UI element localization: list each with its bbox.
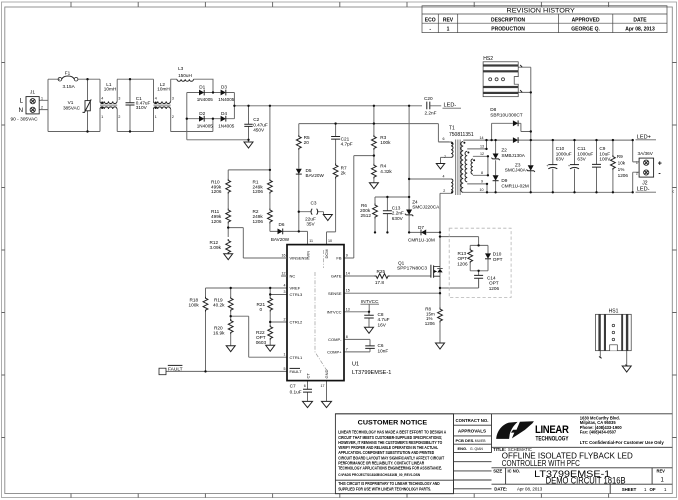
svg-text:BAV20W: BAV20W [271,237,290,242]
svg-text:4: 4 [284,284,286,288]
svg-text:14: 14 [346,272,350,276]
svg-text:CTRL3: CTRL3 [290,292,303,297]
svg-text:BAV20W: BAV20W [306,173,325,178]
svg-text:CONTROLLER WITH PFC: CONTROLLER WITH PFC [502,459,580,468]
svg-text:TECHNOLOGY APPLICATIONS ENGINE: TECHNOLOGY APPLICATIONS ENGINEERING FOR … [338,466,442,471]
svg-text:10: 10 [328,239,332,243]
svg-text:9: 9 [481,180,483,184]
svg-text:SHEET: SHEET [622,487,637,492]
svg-text:630V: 630V [392,216,404,221]
svg-text:4: 4 [101,96,103,100]
svg-text:1206: 1206 [253,219,264,224]
svg-text:1: 1 [284,353,286,357]
svg-text:LINEAR: LINEAR [535,424,569,436]
svg-text:20: 20 [304,140,310,145]
svg-text:11: 11 [309,239,313,243]
svg-text:1: 1 [636,161,638,165]
svg-text:1206: 1206 [457,261,468,266]
svg-text:C6: C6 [378,343,384,348]
svg-text:GND: GND [324,370,329,379]
svg-text:385VAC: 385VAC [63,106,81,111]
svg-text:8: 8 [481,171,483,175]
svg-text:ECO: ECO [425,17,436,23]
svg-text:1: 1 [155,115,157,119]
svg-text:12: 12 [480,152,484,156]
svg-text:DATE: DATE [633,17,647,23]
svg-text:100k: 100k [380,140,391,145]
svg-text:450V: 450V [253,128,265,133]
svg-text:63V: 63V [556,157,565,162]
svg-text:INTVCC: INTVCC [327,310,342,315]
svg-text:c: c [673,190,675,194]
svg-text:Z2: Z2 [501,147,507,152]
svg-text:0: 0 [260,307,263,312]
svg-text:3: 3 [172,96,174,100]
svg-text:0.1uF: 0.1uF [290,390,302,395]
svg-text:VREF: VREF [290,286,301,291]
svg-text:10: 10 [480,188,484,192]
svg-text:2: 2 [41,105,43,109]
svg-text:+: + [658,161,662,168]
svg-text:LT3799EMSE-1: LT3799EMSE-1 [352,370,391,376]
svg-text:1: 1 [447,27,450,33]
svg-text:SMCJ40A: SMCJ40A [505,168,527,173]
svg-text:D8: D8 [490,107,496,112]
svg-text:63V: 63V [577,157,586,162]
svg-text:12: 12 [282,272,286,276]
svg-text:OF: OF [650,487,656,492]
svg-text:FAULT: FAULT [168,366,183,372]
svg-text:J2: J2 [642,181,648,187]
svg-text:9: 9 [346,254,348,258]
svg-text:D2: D2 [199,111,205,116]
svg-text:35V: 35V [306,221,315,226]
svg-text:3A/36V: 3A/36V [638,151,654,156]
svg-text:CMR1U-02M: CMR1U-02M [501,183,528,188]
svg-text:1N4005: 1N4005 [218,123,235,128]
svg-text:SMBJ130A: SMBJ130A [501,153,525,158]
svg-text:PCB DES.: PCB DES. [456,438,475,443]
svg-text:CONTRACT NO.: CONTRACT NO. [456,418,489,423]
svg-text:100k: 100k [189,303,200,308]
svg-text:DEMO CIRCUIT 1816B: DEMO CIRCUIT 1816B [546,476,626,486]
svg-text:3.09k: 3.09k [210,245,222,250]
svg-text:2k: 2k [341,171,347,176]
svg-text:SBR10U300CT: SBR10U300CT [490,113,522,118]
svg-text:VIN: VIN [306,251,311,258]
svg-text:2: 2 [172,115,174,119]
svg-text:2512: 2512 [361,213,372,218]
svg-text:16.9k: 16.9k [213,331,225,336]
svg-text:1N4005: 1N4005 [197,97,214,102]
svg-text:DESCRIPTION: DESCRIPTION [491,17,526,23]
svg-text:D6: D6 [279,222,285,227]
svg-text:6: 6 [443,137,445,141]
svg-text:CTRL2: CTRL2 [290,320,303,325]
svg-text:3.15A: 3.15A [63,84,76,89]
svg-text:150uH: 150uH [178,73,192,78]
svg-text:SUPPLIED FOR USE WITH LINEAR T: SUPPLIED FOR USE WITH LINEAR TECHNOLOGY … [338,486,431,491]
svg-text:COMP-: COMP- [328,337,342,342]
svg-text:CUSTOMER NOTICE: CUSTOMER NOTICE [358,420,428,427]
svg-text:3: 3 [284,290,286,294]
svg-text:0603: 0603 [256,340,267,345]
svg-text:ENG.: ENG. [458,446,468,451]
svg-text:15: 15 [346,289,350,293]
svg-text:2: 2 [443,189,445,193]
svg-text:IC NO.: IC NO. [508,469,521,474]
svg-text:14: 14 [480,136,484,140]
svg-text:D4: D4 [221,111,227,116]
svg-text:T1: T1 [449,126,455,132]
svg-text:C2: C2 [253,117,259,122]
svg-text:Fax: (408)434-0507: Fax: (408)434-0507 [580,429,617,434]
svg-text:17.8: 17.8 [375,280,385,285]
svg-text:3: 3 [118,96,120,100]
svg-text:CT: CT [306,373,311,379]
svg-text:4.32k: 4.32k [380,169,392,174]
svg-text:7: 7 [346,347,348,351]
svg-text:4.7pF: 4.7pF [341,141,353,146]
svg-text:310V: 310V [136,105,148,110]
svg-text:750811351: 750811351 [449,132,474,138]
svg-text:C20: C20 [424,96,433,101]
svg-text:1206: 1206 [211,219,222,224]
svg-text:FAULT: FAULT [290,369,303,374]
svg-text:10nF: 10nF [378,348,389,353]
svg-text:16V: 16V [378,322,387,327]
svg-text:90 - 305VAC: 90 - 305VAC [11,117,39,123]
svg-text:1N4005: 1N4005 [197,123,214,128]
svg-text:1206: 1206 [618,173,629,178]
svg-text:OPT: OPT [493,257,503,262]
svg-text:SPP17N80C3: SPP17N80C3 [397,265,428,270]
svg-text:FB: FB [336,256,341,261]
svg-text:4: 4 [155,96,157,100]
svg-text:D1: D1 [199,85,205,90]
svg-text:1206: 1206 [211,189,222,194]
svg-text:APPROVED: APPROVED [572,17,600,23]
svg-text:1%: 1% [618,167,625,172]
svg-text:2: 2 [118,115,120,119]
svg-text:LTC Confidential-For Customer: LTC Confidential-For Customer Use Only [580,440,665,445]
svg-text:Apr 08, 2013: Apr 08, 2013 [625,27,655,33]
svg-text:7: 7 [444,155,446,159]
svg-text:4: 4 [443,174,445,178]
svg-text:PRODUCTION: PRODUCTION [491,27,525,33]
svg-text:U1: U1 [352,362,359,368]
svg-text:DATE:: DATE: [494,487,508,492]
svg-text:N: N [18,107,23,114]
svg-text:13: 13 [346,307,350,311]
svg-text:DCM: DCM [324,249,329,258]
svg-text:L3: L3 [178,66,184,71]
svg-text:TECHNOLOGY: TECHNOLOGY [536,435,570,442]
svg-text:SENSE: SENSE [328,291,342,296]
svg-text:10k: 10k [618,161,626,166]
svg-text:HS1: HS1 [609,308,619,314]
svg-text:LED-: LED- [444,103,457,109]
svg-text:C3: C3 [311,201,317,206]
svg-text:40.2k: 40.2k [213,303,225,308]
svg-text:5: 5 [284,367,286,371]
svg-text:REV: REV [443,17,454,23]
svg-text:13: 13 [480,145,484,149]
svg-text:Apr 08, 2013: Apr 08, 2013 [517,487,543,492]
svg-text:SIZE: SIZE [493,469,502,474]
svg-text:16: 16 [282,254,286,258]
svg-text:2.2nF: 2.2nF [425,110,437,115]
svg-text:1: 1 [101,115,103,119]
svg-text:MU/EB: MU/EB [475,439,486,443]
svg-text:REVISION HISTORY: REVISION HISTORY [507,7,576,14]
svg-text:NC: NC [290,274,296,279]
svg-text:8: 8 [346,335,348,339]
svg-text:CMR1U-10M: CMR1U-10M [408,238,435,243]
svg-text:F1: F1 [65,71,71,76]
svg-text:J1: J1 [30,89,35,94]
svg-text:G. QIAN: G. QIAN [470,447,483,451]
svg-text:V1: V1 [68,100,74,105]
svg-text:2: 2 [284,318,286,322]
svg-text:6: 6 [304,384,306,388]
svg-text:GEORGE Q.: GEORGE Q. [571,27,600,33]
svg-text:D3: D3 [221,85,227,90]
svg-text:L: L [19,97,23,104]
svg-text:10mH: 10mH [157,87,170,92]
svg-text:1206: 1206 [425,321,436,326]
svg-text:1: 1 [41,97,43,101]
svg-text:2: 2 [636,172,638,176]
svg-text:INTVCC: INTVCC [361,299,379,304]
svg-text:COMP+: COMP+ [327,350,342,355]
svg-text:1N4005: 1N4005 [218,97,235,102]
svg-text:APPROVALS: APPROVALS [458,429,486,434]
svg-text:100V: 100V [599,157,611,162]
svg-text:HS2: HS2 [483,56,493,62]
svg-text:REV: REV [657,469,666,474]
svg-text:D7: D7 [418,225,424,230]
svg-text:10mH: 10mH [104,87,117,92]
svg-text:SMCJ220CA: SMCJ220CA [412,205,440,210]
svg-text:R9: R9 [617,154,623,159]
svg-text:D9: D9 [501,178,507,183]
svg-text:GATE: GATE [331,274,342,279]
svg-text:1206: 1206 [253,189,264,194]
svg-text:1206: 1206 [489,286,500,291]
svg-text:17: 17 [321,384,325,388]
svg-text:C:\PADS PROJECTS\1816B\SCH\181: C:\PADS PROJECTS\1816B\SCH\1816B_00_REV1… [338,473,420,477]
svg-text:C7: C7 [290,383,296,388]
svg-text:R25: R25 [376,269,385,274]
svg-text:CTRL1: CTRL1 [290,355,303,360]
